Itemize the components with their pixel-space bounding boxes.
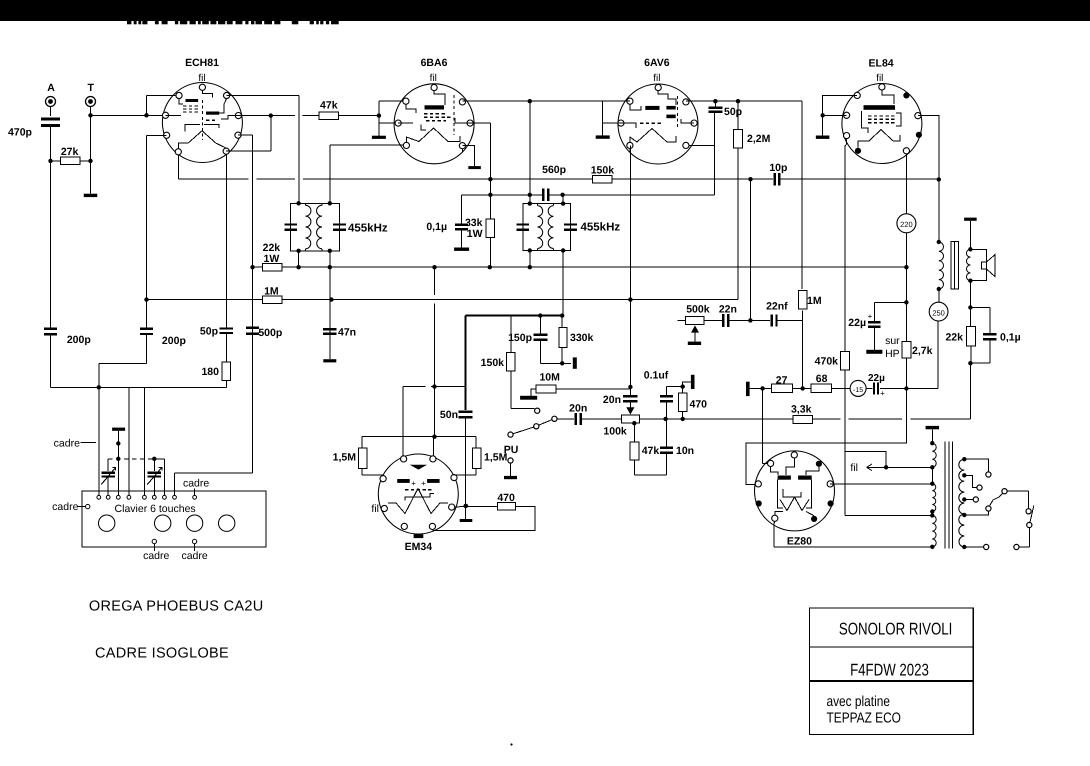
svg-text:ECH81: ECH81 <box>185 57 219 69</box>
svg-text:1,5M: 1,5M <box>484 451 508 463</box>
svg-text:22µ: 22µ <box>848 317 866 329</box>
svg-text:220: 220 <box>900 220 913 229</box>
svg-text:1M: 1M <box>807 295 822 307</box>
svg-text:10n: 10n <box>676 445 694 457</box>
svg-text:22k: 22k <box>945 331 963 343</box>
svg-text:0,1µ: 0,1µ <box>1000 331 1021 343</box>
svg-text:500p: 500p <box>258 327 282 339</box>
svg-text:EM34: EM34 <box>405 541 433 553</box>
svg-text:fil: fil <box>371 503 379 515</box>
svg-text:fil: fil <box>198 73 205 84</box>
svg-text:455kHz: 455kHz <box>348 223 388 235</box>
svg-text:-15: -15 <box>853 387 863 394</box>
svg-text:560p: 560p <box>542 164 566 176</box>
svg-text:200p: 200p <box>162 335 186 347</box>
svg-text:+: + <box>868 312 873 321</box>
svg-text:20n: 20n <box>603 394 621 406</box>
svg-text:SONOLOR RIVOLI: SONOLOR RIVOLI <box>839 620 952 639</box>
svg-text:fil: fil <box>430 73 437 84</box>
svg-text:+: + <box>411 479 416 488</box>
svg-text:2,7k: 2,7k <box>912 345 933 357</box>
svg-text:455kHz: 455kHz <box>581 222 621 234</box>
svg-text:470: 470 <box>690 399 708 411</box>
svg-text:150k: 150k <box>591 165 615 177</box>
svg-text:470: 470 <box>497 492 515 504</box>
svg-text:150k: 150k <box>481 357 505 369</box>
svg-text:27: 27 <box>776 374 788 386</box>
svg-text:0.1uf: 0.1uf <box>644 369 669 381</box>
svg-text:47k: 47k <box>642 445 660 457</box>
svg-text:180: 180 <box>201 366 219 378</box>
svg-text:sur: sur <box>885 335 900 347</box>
svg-text:Clavier 6 touches: Clavier 6 touches <box>115 503 196 515</box>
svg-text:fil: fil <box>653 73 660 84</box>
svg-text:27k: 27k <box>61 146 79 158</box>
svg-text:cadre: cadre <box>54 437 80 449</box>
svg-text:6BA6: 6BA6 <box>421 57 448 69</box>
svg-text:fil: fil <box>876 73 883 84</box>
svg-text:470k: 470k <box>815 355 839 367</box>
svg-text:47n: 47n <box>338 327 356 339</box>
svg-text:22n: 22n <box>719 303 737 315</box>
svg-text:OREGA PHOEBUS CA2U: OREGA PHOEBUS CA2U <box>89 599 264 615</box>
svg-text:50p: 50p <box>724 106 742 118</box>
svg-text:10M: 10M <box>539 371 560 383</box>
svg-text:100k: 100k <box>603 425 627 437</box>
svg-text:150p: 150p <box>508 332 532 344</box>
svg-text:avec platine: avec platine <box>827 694 890 710</box>
svg-text:470p: 470p <box>8 127 32 139</box>
svg-text:1W: 1W <box>467 228 483 240</box>
svg-text:+: + <box>880 389 885 398</box>
svg-text:200p: 200p <box>67 334 91 346</box>
svg-text:10p: 10p <box>769 162 787 174</box>
svg-text:68: 68 <box>816 373 828 385</box>
svg-text:1,5M: 1,5M <box>333 451 357 463</box>
svg-text:cadre: cadre <box>181 550 207 562</box>
svg-text:50p: 50p <box>200 326 218 338</box>
svg-text:3,3k: 3,3k <box>791 403 812 415</box>
svg-text:TEPPAZ ECO: TEPPAZ ECO <box>827 711 901 727</box>
svg-text:22µ: 22µ <box>868 373 885 384</box>
svg-text:HP: HP <box>885 348 900 360</box>
svg-text:250: 250 <box>932 308 945 317</box>
svg-text:22nf: 22nf <box>766 300 788 312</box>
svg-text:fil: fil <box>850 462 858 474</box>
svg-text:EZ80: EZ80 <box>787 535 812 547</box>
svg-text:cadre: cadre <box>183 478 209 490</box>
svg-text:cadre: cadre <box>143 550 169 562</box>
svg-text:A: A <box>47 82 55 94</box>
svg-text:0,1µ: 0,1µ <box>426 221 447 233</box>
svg-text:47k: 47k <box>320 99 338 111</box>
svg-text:50n: 50n <box>440 409 458 421</box>
svg-text:1M: 1M <box>264 286 279 298</box>
svg-text:F4FDW 2023: F4FDW 2023 <box>850 661 929 680</box>
svg-text:+: + <box>421 479 426 488</box>
svg-text:CADRE ISOGLOBE: CADRE ISOGLOBE <box>95 646 229 662</box>
svg-text:330k: 330k <box>570 332 594 344</box>
svg-text:2,2M: 2,2M <box>747 133 771 145</box>
svg-text:T: T <box>87 82 94 94</box>
svg-text:33k: 33k <box>465 217 483 229</box>
svg-text:22k: 22k <box>263 242 281 254</box>
svg-text:6AV6: 6AV6 <box>644 57 670 69</box>
svg-text:1W: 1W <box>264 253 280 265</box>
svg-text:EL84: EL84 <box>869 58 894 70</box>
svg-text:500k: 500k <box>686 304 710 316</box>
svg-text:20n: 20n <box>569 402 587 414</box>
svg-text:cadre: cadre <box>52 501 78 513</box>
